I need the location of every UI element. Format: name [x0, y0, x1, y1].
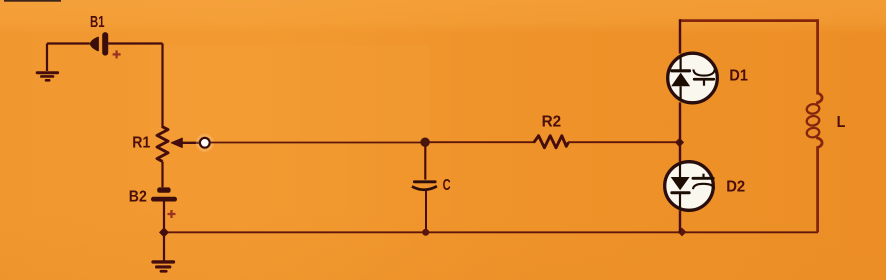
- svg-text:R1: R1: [132, 134, 150, 151]
- svg-text:B2: B2: [129, 189, 147, 206]
- svg-text:R2: R2: [542, 113, 562, 130]
- svg-text:D2: D2: [726, 178, 745, 195]
- svg-text:B1: B1: [90, 14, 105, 31]
- svg-text:L: L: [837, 114, 846, 131]
- svg-text:C: C: [443, 177, 451, 194]
- svg-text:D1: D1: [729, 68, 748, 85]
